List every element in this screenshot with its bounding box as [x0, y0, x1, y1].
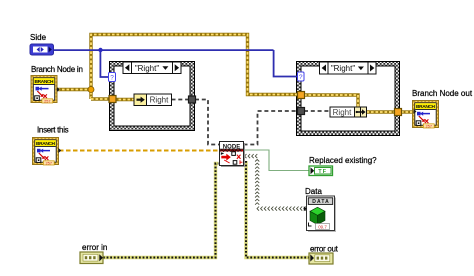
svg-text:"Right": "Right": [135, 64, 160, 73]
wire blue drop to case 2 selector terminal: [274, 50, 298, 77]
bundle by name node (case 2): [330, 107, 367, 117]
subVI NODE icon: [220, 142, 246, 168]
tunnel case1 selector ?: [109, 73, 116, 82]
wire gray dashed: case1 tunnel down to NODE: [195, 100, 220, 145]
svg-text:TF: TF: [318, 169, 327, 175]
svg-text:Branch Node in: Branch Node in: [31, 65, 83, 74]
case structure 2 (border): [297, 62, 400, 136]
svg-text:"Right": "Right": [331, 64, 356, 73]
case selector label 1: [123, 62, 181, 74]
svg-text:?: ?: [299, 74, 303, 81]
tunnel case2 gray input: [298, 108, 305, 115]
svg-text:Side: Side: [30, 33, 47, 42]
svg-text:Replaced existing?: Replaced existing?: [309, 156, 377, 165]
svg-text:error out: error out: [310, 245, 339, 254]
svg-text:Right: Right: [333, 108, 352, 117]
tunnel case1 orange input: [109, 96, 116, 103]
case selector label 2: [320, 62, 377, 74]
svg-text:Branch Node out: Branch Node out: [412, 89, 473, 98]
wire cluster rope: branch icon to junction: [58, 88, 92, 91]
case structure 1 (border): [110, 62, 195, 131]
wire Side blue horizontal: [54, 49, 274, 51]
svg-text:error in: error in: [82, 243, 107, 252]
tunnel case2 orange input: [298, 92, 305, 99]
svg-text:DATA: DATA: [312, 199, 329, 205]
junction orange rope wire: [88, 87, 94, 93]
svg-text:Insert this: Insert this: [37, 126, 69, 135]
wire gray dashed: NODE up to case2 left tunnel: [244, 111, 299, 145]
wire cluster rope: vertical + top run to case 2: [91, 35, 298, 100]
wire variant chevrons: NODE to Data: [245, 154, 306, 211]
indicator Data (variant): [304, 196, 336, 232]
indicator Replaced existing? (TF): [309, 166, 333, 176]
control Side (enum): [30, 44, 54, 55]
wire cluster rope inside case 2 to bundle: [304, 95, 358, 107]
wire green boolean: NODE to TF indicator: [244, 150, 310, 171]
terminal Branch Node out: [413, 101, 439, 129]
terminal Branch Node in: [31, 76, 60, 104]
constant error in: [80, 252, 103, 264]
wire gray dashed inside case2: tunnel to bundle: [304, 110, 330, 112]
terminal Insert this: [33, 138, 62, 166]
svg-text:?: ?: [110, 75, 114, 82]
indicator error out: [309, 253, 333, 264]
svg-text:Data: Data: [305, 187, 322, 196]
wire NODE to error out: [246, 161, 309, 258]
svg-text:Right: Right: [150, 96, 169, 105]
unbundle by name node (case 1): [134, 94, 172, 106]
wire cluster dashed: Insert this to NODE: [59, 150, 220, 152]
wire error in to NODE: [103, 164, 219, 258]
tunnel case2 selector ?: [298, 72, 305, 81]
tunnel case1 gray output: [189, 96, 196, 103]
junction blue wire: [98, 48, 102, 52]
wire gray dashed: unbundle to case1 right tunnel: [172, 99, 190, 101]
wire cluster rope: junction down into case 1 tunnel: [91, 97, 111, 100]
wire cluster rope tunnel to Branch Node out: [401, 110, 413, 113]
svg-text:09.7: 09.7: [318, 225, 327, 230]
tunnel case2 orange output: [395, 109, 402, 116]
wire blue drop to case 1 selector terminal: [100, 50, 109, 77]
wire cluster rope inside case 1: [114, 98, 135, 101]
wire cluster rope bundle out to tunnel: [367, 110, 396, 113]
